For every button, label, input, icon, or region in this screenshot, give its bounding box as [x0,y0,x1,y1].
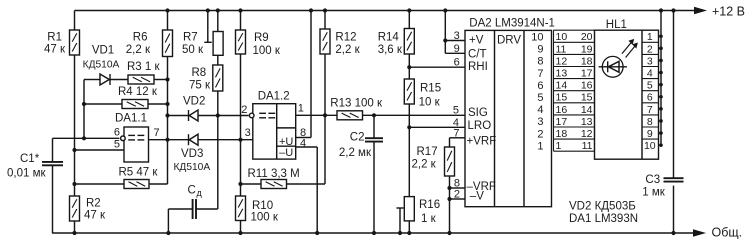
svg-text:13: 13 [581,116,593,128]
svg-text:3: 3 [647,55,653,67]
svg-text:HL1: HL1 [606,19,627,31]
svg-text:3: 3 [537,116,543,128]
svg-text:1 к: 1 к [421,213,437,225]
svg-text:14: 14 [581,104,593,116]
svg-text:–V: –V [470,191,484,203]
svg-text:1 мк: 1 мк [642,187,665,199]
svg-text:8: 8 [537,56,543,68]
svg-text:3,6 к: 3,6 к [378,44,403,56]
svg-text:16: 16 [556,104,568,116]
svg-text:100 к: 100 к [251,212,279,224]
svg-text:13: 13 [556,67,568,79]
svg-text:DA1.1: DA1.1 [115,112,147,124]
svg-text:2,2 к: 2,2 к [335,44,360,56]
svg-text:+12 В: +12 В [712,4,745,18]
svg-text:50 к: 50 к [182,44,204,56]
svg-text:1: 1 [647,31,653,43]
svg-text:14: 14 [556,80,568,92]
svg-text:DA1.2: DA1.2 [258,91,290,103]
svg-text:DA2 LM3914N-1: DA2 LM3914N-1 [469,18,555,30]
svg-text:15: 15 [581,92,593,104]
svg-text:15: 15 [556,92,568,104]
svg-text:100 к: 100 к [253,45,281,57]
svg-text:2,2 к: 2,2 к [126,44,151,56]
svg-text:КД510А: КД510А [174,162,211,173]
svg-text:C3: C3 [645,174,660,186]
svg-text:д: д [197,188,203,198]
svg-text:8: 8 [647,116,653,128]
svg-text:18: 18 [581,55,593,67]
svg-text:3: 3 [245,127,251,139]
svg-text:R5 47 к: R5 47 к [119,167,159,179]
svg-text:–U: –U [279,147,293,159]
svg-text:RHI: RHI [468,61,488,73]
svg-text:11: 11 [556,43,567,55]
svg-text:C2: C2 [350,131,365,143]
svg-text:17: 17 [556,116,568,128]
svg-text:12: 12 [581,128,593,140]
svg-text:18: 18 [556,128,568,140]
svg-text:6: 6 [647,92,653,104]
svg-text:10: 10 [531,31,543,43]
svg-text:9: 9 [454,43,460,55]
svg-text:3: 3 [454,30,460,42]
svg-text:7: 7 [453,128,459,140]
svg-text:5: 5 [114,139,120,151]
svg-text:VD3: VD3 [181,148,203,160]
svg-text:2: 2 [537,128,543,140]
svg-text:1: 1 [537,140,543,152]
svg-text:C/T: C/T [468,48,487,60]
svg-text:R6: R6 [133,31,148,43]
svg-text:10: 10 [644,140,656,152]
svg-text:R16: R16 [419,199,440,211]
svg-text:C1*: C1* [20,153,40,165]
svg-text:4: 4 [647,67,653,79]
svg-text:2,2 мк: 2,2 мк [339,147,372,159]
svg-text:R8: R8 [192,67,207,79]
svg-text:R3 1 к: R3 1 к [127,61,160,73]
svg-text:+VRF: +VRF [467,136,497,148]
svg-text:1: 1 [298,103,304,115]
svg-text:5: 5 [537,92,543,104]
svg-text:С: С [188,184,196,196]
svg-text:7: 7 [647,104,653,116]
svg-text:20: 20 [581,31,593,43]
svg-text:6: 6 [454,57,460,69]
svg-text:R12: R12 [335,31,356,43]
svg-text:5: 5 [453,105,459,117]
svg-text:6: 6 [114,127,120,139]
svg-text:5: 5 [647,80,653,92]
svg-text:Общ.: Общ. [712,225,743,239]
svg-text:R14: R14 [378,31,400,43]
svg-text:75 к: 75 к [189,80,211,92]
svg-text:10: 10 [556,31,568,43]
svg-text:9: 9 [647,128,653,140]
svg-text:VD1: VD1 [92,45,114,57]
svg-text:R2: R2 [86,197,101,209]
svg-text:16: 16 [581,80,593,92]
svg-text:R15: R15 [420,83,441,95]
svg-text:R11 3,3 М: R11 3,3 М [248,168,300,180]
svg-text:7: 7 [154,127,160,139]
svg-text:47 к: 47 к [44,44,66,56]
svg-text:DRV: DRV [497,35,521,47]
svg-text:47 к: 47 к [84,209,106,221]
svg-text:VD2: VD2 [183,95,205,107]
svg-text:12: 12 [556,55,568,67]
svg-text:+V: +V [469,35,484,47]
svg-text:2: 2 [647,43,653,55]
svg-text:10 к: 10 к [419,97,441,109]
svg-text:R10: R10 [252,200,273,212]
svg-text:КД510А: КД510А [83,60,120,71]
svg-text:SIG: SIG [468,107,488,119]
svg-text:R7: R7 [183,31,198,43]
svg-text:VD2 КД503Б: VD2 КД503Б [569,201,636,213]
svg-text:2,2 к: 2,2 к [412,159,437,171]
svg-text:2: 2 [454,189,460,201]
svg-text:1: 1 [556,140,562,152]
svg-text:0,01 мк: 0,01 мк [7,168,46,180]
svg-text:17: 17 [581,67,593,79]
svg-text:7: 7 [537,68,543,80]
svg-text:R1: R1 [47,31,62,43]
svg-text:4: 4 [537,104,543,116]
svg-text:6: 6 [537,80,543,92]
svg-text:9: 9 [537,44,543,56]
svg-text:LRO: LRO [468,120,492,132]
svg-text:DA1 LM393N: DA1 LM393N [569,213,638,225]
svg-text:2: 2 [241,104,247,116]
svg-text:11: 11 [582,140,593,152]
svg-text:R9: R9 [254,32,269,44]
svg-text:R17: R17 [417,146,438,158]
svg-text:R13 100 к: R13 100 к [330,98,383,110]
svg-text:19: 19 [581,43,593,55]
svg-text:R4 12 к: R4 12 к [118,86,158,98]
